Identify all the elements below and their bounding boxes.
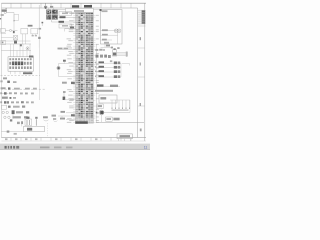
lamp H2 symbol [5, 29, 17, 31]
junction blob on vertical [38, 37, 40, 39]
component box with label [59, 12, 76, 16]
sheet right inner border line [137, 8, 139, 138]
sheet bottom ruler ticks [11, 138, 131, 141]
text row under enclosure [95, 49, 104, 51]
wire below X5 [1, 33, 7, 35]
wire lower right of valve [110, 60, 130, 65]
component symbols row y55 [96, 55, 111, 58]
terminal box row 4 [2, 105, 26, 109]
junction dots pair [20, 44, 22, 46]
control box [99, 95, 117, 103]
sheet top inner border line [2, 7, 138, 9]
connector X1 top white band [66, 8, 94, 12]
diode component [12, 110, 15, 119]
horizontal bus wire y44 [1, 43, 31, 45]
label B6 B8 [28, 25, 41, 30]
sheet zone digit 2 [140, 103, 141, 106]
connector bubbles row 6 [4, 116, 28, 118]
wire with dark label y17.5 [59, 16, 76, 18]
pin labels under B8 [32, 35, 37, 36]
wire cluster to connector top [58, 9, 66, 11]
wire from F4 down [13, 13, 15, 31]
section divider vertical line [96, 44, 98, 122]
switch row 4 [97, 84, 121, 87]
sheet top border ruler line [2, 2, 147, 4]
motor M1 circle [114, 29, 118, 33]
sensor box B6 [21, 28, 28, 34]
vertical link wire [58, 64, 60, 77]
dashed harness separator line 2 [1, 88, 46, 90]
pump motor dark symbol [99, 110, 104, 122]
legend box bottom-left [24, 126, 45, 131]
tiny label under wire [14, 133, 17, 135]
timer label t [43, 116, 48, 121]
component box 2 [59, 24, 72, 28]
timer curve 2 [53, 118, 57, 121]
wire y76.5 [59, 76, 76, 78]
terminal box X5 [1, 29, 6, 33]
footer page number blue [144, 146, 148, 150]
labels above cluster K1 [44, 3, 54, 9]
motor M2 circle [104, 29, 121, 44]
ECU bottom dark label [23, 72, 32, 74]
terminal box left [97, 104, 103, 109]
sensor box B8 [31, 28, 38, 34]
splice component row 1 [0, 92, 34, 94]
fuse label F4 [2, 8, 7, 12]
edge tick [0, 18, 1, 20]
sheet top ruler ticks [11, 3, 131, 8]
stub label above pump [63, 60, 66, 64]
labels under separator 1 [0, 77, 16, 83]
label pair y82 [62, 82, 75, 84]
small box right of F4 wire [14, 15, 19, 21]
wire y112.8 with label [61, 111, 76, 113]
dark junction blob under S1 [14, 41, 17, 44]
horizontal bus wire y50.5 [1, 50, 31, 52]
solenoid valve Y1 [111, 47, 120, 56]
connector X1 bottom label [75, 121, 88, 124]
lamp circuit wire 3 [101, 39, 113, 41]
dashed harness separator line 1 [1, 75, 41, 77]
bottom ruler faint digits [5, 138, 98, 140]
inductor element [35, 117, 37, 126]
sensor box bottom pins [23, 34, 36, 44]
label box row bottom [106, 117, 120, 121]
label and wire y49 [58, 48, 76, 50]
switch wire rows with connector cells [95, 61, 121, 78]
relay K5 box with coils [25, 117, 32, 126]
ECU plug block A1 [8, 56, 33, 72]
sheet bottom inner line [1, 140, 146, 142]
pickup coil circle [26, 47, 29, 50]
wire down from enclosure [101, 44, 113, 47]
junction dot at enclosure corner [93, 9, 101, 11]
wire label row above separator [1, 87, 37, 89]
sheet right margin dividers [138, 26, 146, 106]
three parallel wires from valve [117, 52, 128, 57]
terminal row 3 [0, 101, 34, 103]
wire bottom left vertical [21, 122, 23, 127]
label row 2 [2, 97, 16, 99]
title block side mark [140, 129, 142, 132]
enclosure box top-right [101, 10, 123, 44]
comb bus wires [110, 100, 130, 113]
footer gray band [0, 144, 150, 150]
comb labels row [112, 109, 129, 110]
lamp circuit wire 2 [101, 34, 118, 36]
horizontal bus wire y41 [1, 40, 30, 42]
label and wire y116 [52, 114, 76, 116]
sheet zone digit 1 [140, 37, 141, 40]
drawing bottom frame right part [96, 121, 144, 123]
corner wire to connector y28.7 [65, 27, 76, 32]
sheet bottom ruler line [1, 137, 146, 139]
relay block cluster K1 [46, 10, 58, 20]
wire along bottom [1, 131, 23, 133]
wires from bus down to ECU plug [11, 44, 31, 57]
wire cluster down [51, 20, 53, 22]
switch S1 box with cross [13, 36, 17, 41]
dashed fold line [47, 123, 49, 136]
sender unit box left edge [1, 40, 6, 45]
connector X1 header label left [72, 5, 79, 7]
sheet right outer border line [144, 3, 146, 141]
label left margin [1, 14, 4, 16]
lamp circuit wire 1 [101, 29, 117, 31]
long vertical wire at x39 [38, 5, 40, 100]
title block box [117, 134, 132, 141]
junction cluster [13, 31, 15, 33]
ECU bottom pins [11, 71, 31, 74]
small marks near relay [17, 121, 23, 124]
diode D2 with wire [63, 91, 76, 100]
svg-text:11: 11 [144, 146, 148, 150]
wire y119.5 with label [60, 116, 76, 120]
bus wire y112.5 [96, 112, 130, 114]
label E1 [10, 119, 12, 121]
footer text middle [40, 147, 73, 149]
footer text left [5, 146, 20, 149]
sheet left border line [0, 3, 2, 137]
connector X1 pin table [76, 13, 94, 124]
connector X1 left pin stubs and wire labels [67, 13, 76, 123]
fuse F4 symbol [4, 11, 14, 13]
long label line y91 [95, 90, 113, 92]
wire y37.5 [1, 37, 13, 39]
sheet zone digit 0 [140, 63, 141, 66]
connector bubbles row 5 [2, 111, 29, 113]
stub with dot x42 [42, 22, 44, 26]
connector X1 right pin stubs [93, 15, 99, 123]
pump symbol on link [57, 66, 60, 69]
revision table top-right [138, 10, 146, 24]
wire y63.5 [59, 63, 76, 65]
connector X1 header label right [84, 5, 92, 8]
wire with dark label to connector [52, 21, 76, 23]
